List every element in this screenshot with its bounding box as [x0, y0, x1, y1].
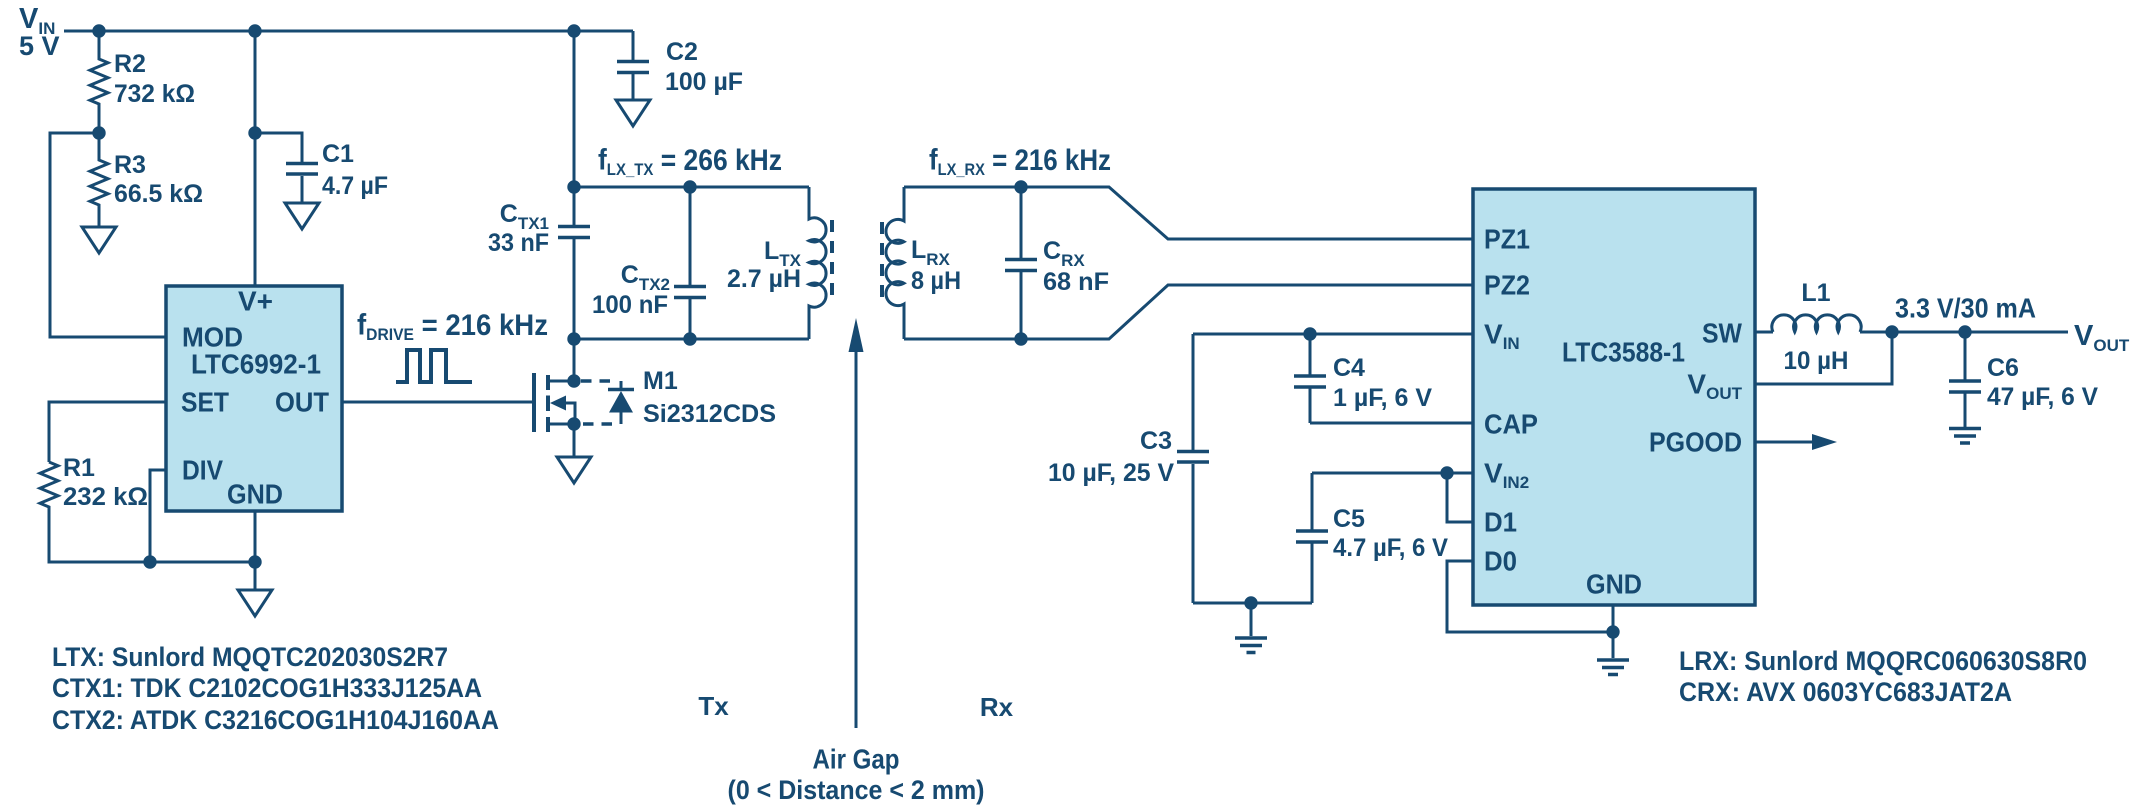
wire GND stub	[254, 511, 257, 590]
junction ground bus	[1244, 596, 1257, 609]
ground C2	[616, 100, 650, 126]
svg-text:PGOOD: PGOOD	[1649, 427, 1742, 458]
label Air Gap	[728, 744, 985, 806]
core line TX	[830, 220, 834, 304]
op-amp U2 LTC3588-1 body	[1473, 189, 1755, 605]
svg-text:M1: M1	[643, 367, 678, 395]
capacitor C2	[617, 31, 649, 100]
svg-text:C4: C4	[1333, 354, 1365, 382]
junction source	[567, 417, 580, 430]
junction tank bottom CTX2	[683, 332, 696, 345]
junction tank top CTX1	[567, 180, 580, 193]
svg-text:Rx: Rx	[980, 692, 1014, 722]
svg-text:C3: C3	[1140, 427, 1172, 455]
wire TX tank top	[574, 186, 809, 189]
ground C6 earth	[1949, 429, 1981, 444]
wire VIN2 row	[1312, 472, 1473, 475]
wire DIV stub	[150, 470, 166, 562]
junction drain	[567, 374, 580, 387]
svg-text:(0 < Distance < 2 mm): (0 < Distance < 2 mm)	[728, 775, 985, 805]
svg-text:10 µH: 10 µH	[1784, 347, 1849, 375]
ground C3-C5 earth	[1235, 603, 1267, 653]
label C4 value	[1333, 354, 1432, 412]
svg-text:LTC6992-1: LTC6992-1	[191, 349, 321, 380]
svg-text:1 µF, 6 V: 1 µF, 6 V	[1333, 384, 1432, 412]
capacitor CTX1	[558, 187, 590, 339]
ground U2 earth	[1597, 632, 1629, 675]
svg-text:C5: C5	[1333, 505, 1365, 533]
svg-text:66.5 kΩ: 66.5 kΩ	[114, 180, 203, 208]
svg-text:D1: D1	[1484, 507, 1517, 538]
wire SW to L1	[1755, 331, 1773, 334]
svg-text:Tx: Tx	[698, 691, 729, 721]
svg-text:LTX: Sunlord MQQTC202030S2R7: LTX: Sunlord MQQTC202030S2R7	[52, 642, 448, 672]
label C5 value	[1333, 505, 1448, 562]
junction GND-bottom	[248, 555, 261, 568]
ground M1	[557, 457, 591, 483]
wire ground bus C3-C5	[1193, 602, 1312, 605]
junction GND-D0	[1606, 625, 1619, 638]
svg-text:Si2312CDS: Si2312CDS	[643, 400, 776, 428]
junction RX bottom CRX	[1014, 332, 1027, 345]
svg-text:D0: D0	[1484, 546, 1517, 577]
wire VOUT pin riser	[1755, 332, 1892, 384]
inductor L1	[1772, 315, 1861, 332]
svg-text:47 µF, 6 V: 47 µF, 6 V	[1987, 383, 2098, 411]
junction tank bottom CTX1	[567, 332, 580, 345]
label CTX1 value	[488, 200, 549, 257]
junction output-C6	[1958, 325, 1971, 338]
svg-text:CAP: CAP	[1484, 409, 1538, 440]
junction rail-R2	[92, 24, 105, 37]
wire V+ stub	[254, 31, 257, 286]
wire D0 to ground	[1447, 561, 1613, 632]
node VIN 5V label	[19, 3, 60, 61]
label LTX CTX notes	[52, 642, 499, 735]
svg-text:R1: R1	[63, 454, 95, 482]
resistor R3	[90, 133, 108, 227]
label CTX2 value	[592, 261, 670, 319]
wire PGOOD arrow	[1755, 434, 1837, 450]
svg-text:Air Gap: Air Gap	[813, 744, 900, 775]
svg-text:5 V: 5 V	[19, 31, 60, 61]
inductor LRX	[886, 187, 904, 339]
wire CAP row	[1310, 422, 1473, 425]
svg-text:R3: R3	[114, 151, 146, 179]
svg-text:3.3 V/30 mA: 3.3 V/30 mA	[1895, 293, 2036, 324]
svg-text:L1: L1	[1801, 279, 1830, 307]
label LRX CRX notes	[1679, 646, 2087, 707]
svg-text:OUT: OUT	[275, 387, 329, 418]
wire TX tank bottom	[574, 338, 809, 341]
wire tank riser	[573, 31, 576, 187]
label L1 value	[1784, 279, 1849, 375]
capacitor C3	[1177, 334, 1209, 603]
label C3 value	[1048, 427, 1174, 487]
svg-text:PZ1: PZ1	[1484, 224, 1530, 255]
core line RX	[880, 222, 884, 305]
label C1 value	[322, 140, 388, 200]
junction RX top CRX	[1014, 180, 1027, 193]
junction R2-R3 node	[92, 126, 105, 139]
capacitor CTX2	[674, 187, 706, 339]
svg-text:C1: C1	[322, 140, 354, 168]
op-amp U1 LTC6992-1 body	[166, 286, 342, 511]
svg-text:100 µF: 100 µF	[665, 68, 743, 96]
svg-text:100 nF: 100 nF	[592, 291, 668, 319]
svg-text:LRX: Sunlord MQQRC060630S8R0: LRX: Sunlord MQQRC060630S8R0	[1679, 646, 2087, 676]
wire D1 to VIN2	[1447, 473, 1473, 522]
svg-text:68 nF: 68 nF	[1043, 268, 1109, 296]
svg-text:CTX2: ATDK C3216COG1H104J160AA: CTX2: ATDK C3216COG1H104J160AA	[52, 705, 499, 735]
svg-text:10 µF, 25 V: 10 µF, 25 V	[1048, 459, 1174, 487]
capacitor C4	[1294, 334, 1326, 423]
wire GND stub U2	[1612, 605, 1615, 632]
wire SET loop	[49, 402, 166, 462]
svg-text:R2: R2	[114, 50, 146, 78]
ground U1	[238, 590, 272, 616]
label LRX value	[911, 236, 961, 295]
label R1 value	[63, 454, 148, 511]
wire output rail	[1860, 331, 2068, 334]
capacitor C5	[1296, 473, 1328, 603]
junction rail-tank	[567, 24, 580, 37]
svg-text:33 nF: 33 nF	[488, 229, 549, 257]
diode M1 body diode	[581, 381, 634, 424]
wire VIN row	[1193, 333, 1473, 336]
junction DIV-bottom	[143, 555, 156, 568]
junction VIN-C4	[1303, 327, 1316, 340]
air gap arrow	[849, 318, 864, 728]
waveform square wave	[396, 350, 472, 382]
label C6 value	[1987, 354, 2098, 411]
svg-text:C2: C2	[666, 38, 698, 66]
svg-text:C6: C6	[1987, 354, 2019, 382]
wire MOD feedback loop	[50, 133, 166, 337]
resistor R2	[90, 31, 108, 133]
svg-text:SW: SW	[1702, 318, 1743, 349]
wire drain	[573, 339, 576, 381]
svg-text:GND: GND	[1586, 569, 1642, 600]
label M1 value	[643, 367, 776, 428]
label C2 value	[665, 38, 743, 96]
label CRX value	[1043, 237, 1109, 296]
junction rail-V+	[248, 24, 261, 37]
svg-text:732 kΩ: 732 kΩ	[114, 80, 195, 108]
capacitor C1	[255, 133, 318, 203]
svg-text:LTC3588-1: LTC3588-1	[1562, 337, 1685, 368]
svg-text:CTX1: TDK C2102COG1H333J125AA: CTX1: TDK C2102COG1H333J125AA	[52, 673, 482, 703]
ground C1	[285, 203, 319, 229]
svg-text:2.7 µH: 2.7 µH	[727, 265, 801, 293]
inductor LTX	[809, 187, 826, 339]
svg-text:4.7 µF, 6 V: 4.7 µF, 6 V	[1333, 534, 1448, 562]
wire source to ground	[573, 424, 576, 457]
wire OUT to gate	[342, 401, 534, 404]
svg-text:GND: GND	[227, 479, 283, 510]
svg-text:DIV: DIV	[182, 455, 223, 486]
transistor M1 symbol	[534, 373, 575, 432]
label LTX value	[727, 237, 802, 293]
junction V+-C1	[248, 126, 261, 139]
capacitor C6	[1949, 332, 1981, 427]
junction VIN2-D1	[1440, 466, 1453, 479]
svg-text:V+: V+	[238, 286, 273, 317]
svg-text:8 µH: 8 µH	[911, 267, 961, 295]
svg-text:232 kΩ: 232 kΩ	[63, 483, 148, 511]
svg-text:CRX: AVX 0603YC683JAT2A: CRX: AVX 0603YC683JAT2A	[1679, 677, 2012, 707]
svg-text:SET: SET	[181, 387, 229, 418]
svg-text:4.7 µF: 4.7 µF	[322, 172, 388, 200]
wire RX tank bottom to PZ2	[904, 285, 1473, 339]
wire 5V rail	[64, 30, 633, 33]
junction tank top CTX2	[683, 180, 696, 193]
svg-text:PZ2: PZ2	[1484, 270, 1530, 301]
label R3 value	[114, 151, 203, 208]
junction L1-VOUT	[1885, 325, 1898, 338]
capacitor CRX	[1005, 187, 1037, 339]
wire RX tank top to PZ1	[904, 187, 1473, 239]
resistor R1	[40, 462, 255, 562]
ground R3	[82, 227, 116, 253]
label R2 value	[114, 50, 195, 108]
